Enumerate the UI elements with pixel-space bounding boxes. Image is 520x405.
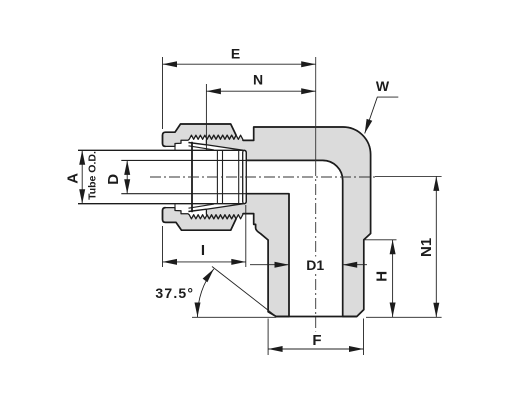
svg-text:N1: N1 (418, 238, 435, 257)
svg-text:A: A (64, 173, 81, 184)
svg-text:D: D (105, 174, 122, 185)
svg-text:N: N (253, 72, 263, 88)
svg-text:I: I (201, 242, 205, 259)
svg-text:37.5°: 37.5° (155, 285, 194, 301)
svg-text:F: F (312, 332, 321, 349)
svg-text:Tube O.D.: Tube O.D. (86, 151, 98, 200)
svg-text:E: E (231, 46, 240, 62)
svg-text:D1: D1 (306, 257, 324, 273)
svg-text:W: W (376, 78, 390, 94)
svg-text:H: H (373, 271, 390, 282)
